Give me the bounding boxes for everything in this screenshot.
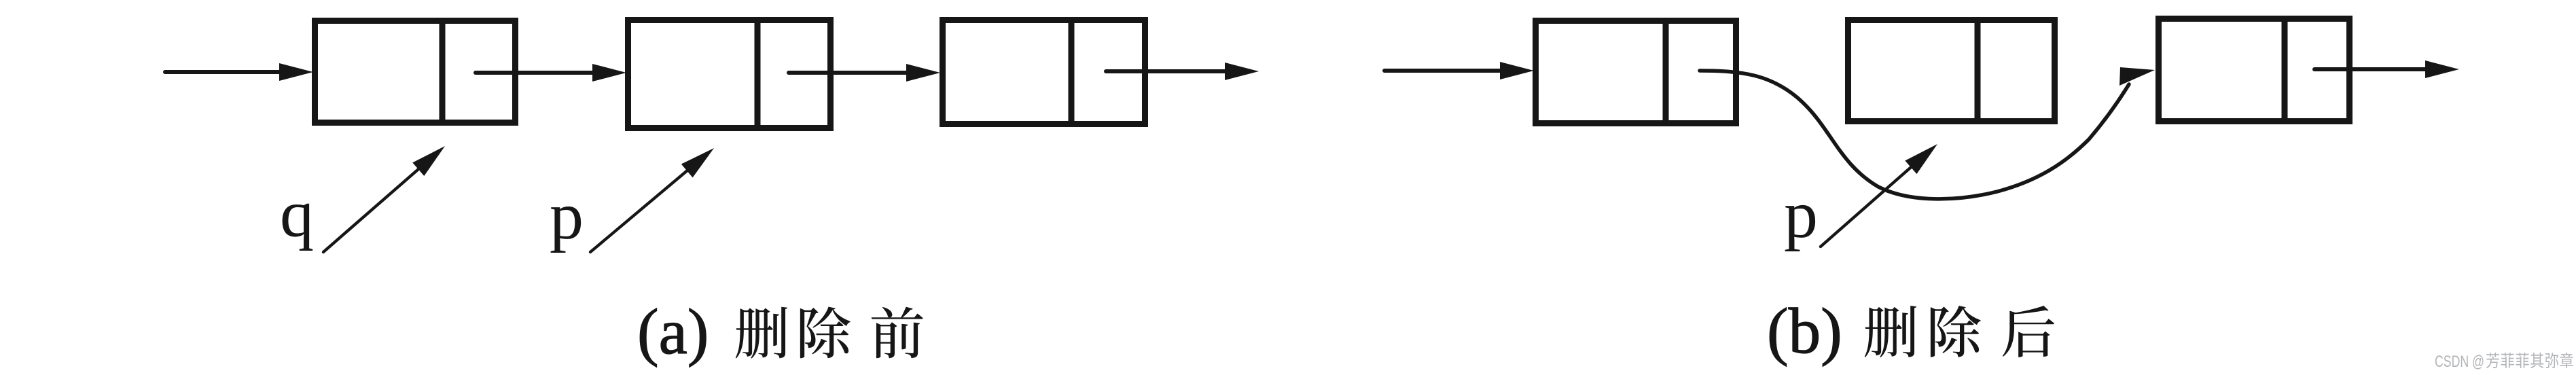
node A2 [628, 18, 831, 130]
caption (b) after-deletion [1767, 295, 2054, 367]
node A3 [943, 18, 1145, 126]
head pointer arrow (b) [1384, 62, 1534, 79]
svg-text:CSDN @: CSDN @ [2435, 353, 2484, 371]
caption (a) before-deletion [637, 296, 923, 368]
pointer arrow q [323, 146, 445, 252]
svg-text:(a): (a) [637, 296, 709, 368]
svg-text:p: p [550, 178, 584, 253]
svg-text:p: p [1784, 177, 1818, 252]
svg-text:q: q [280, 176, 314, 251]
bypass curve B1 to B3 [1700, 67, 2155, 199]
node B2 [1848, 18, 2055, 123]
head pointer arrow (a) [165, 63, 313, 81]
pointer arrow p (a) [590, 148, 714, 252]
svg-text:(b): (b) [1767, 295, 1842, 367]
arrow A1 to A2 [476, 64, 626, 82]
node A1 [315, 19, 516, 124]
node B1 [1536, 19, 1736, 125]
watermark CSDN [2435, 353, 2573, 371]
pointer arrow p (b) [1821, 144, 1937, 247]
tail arrow (a) [1106, 62, 1259, 80]
arrow A2 to A3 [789, 64, 940, 82]
tail arrow (b) [2314, 60, 2459, 78]
node B3 [2159, 17, 2350, 123]
